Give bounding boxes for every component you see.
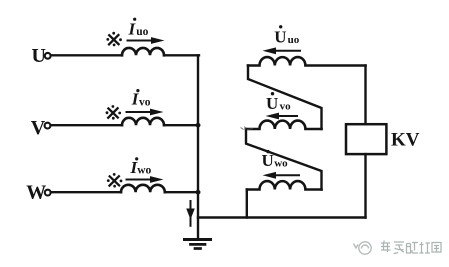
svg-text:wo: wo: [274, 157, 288, 169]
junction node V: [196, 123, 201, 128]
svg-text:I: I: [128, 20, 137, 39]
svg-text:U: U: [274, 28, 286, 47]
svg-text:uo: uo: [288, 34, 300, 46]
junction node W: [196, 190, 201, 195]
svg-text:uo: uo: [136, 26, 148, 38]
wire W phase left: [52, 191, 122, 193]
voltage arrow Uuo: [263, 47, 301, 54]
svg-text:KV: KV: [391, 130, 420, 151]
CT coil W: [121, 185, 165, 192]
svg-text:V: V: [31, 117, 46, 139]
terminal V: [45, 123, 51, 129]
polarity mark V: [106, 105, 122, 120]
label Ivo: [131, 89, 151, 109]
svg-text:U: U: [262, 151, 274, 170]
current arrow Iuo: [128, 37, 165, 44]
wire coil Uwo to bottom: [246, 190, 248, 218]
label Iuo: [128, 18, 149, 39]
label Uvo: [266, 92, 291, 113]
terminal W: [45, 190, 51, 196]
artifact mark: [241, 127, 254, 130]
voltage arrow Uwo: [263, 172, 300, 179]
wire top to relay: [364, 66, 366, 125]
relay KV: [346, 124, 386, 154]
svg-text:vo: vo: [139, 96, 151, 108]
wire V phase right: [164, 124, 199, 126]
PT coil Uuo row baseline: [248, 57, 366, 65]
label Iwo: [130, 157, 152, 177]
wire zigzag V-W: [246, 129, 322, 190]
svg-text:W: W: [26, 182, 46, 204]
current arrow Ivo: [127, 109, 164, 116]
CT coil V: [122, 118, 164, 125]
polarity mark W: [107, 173, 123, 188]
current arrow 3I0 to ground: [186, 201, 195, 226]
polarity mark U: [106, 32, 122, 46]
wire neutral bus: [197, 55, 199, 239]
wire V phase left: [52, 124, 123, 126]
label Uwo: [262, 150, 289, 170]
voltage arrow Uvo: [266, 113, 298, 120]
PT coil Uwo row baseline: [247, 181, 322, 189]
wire residual bottom: [198, 216, 366, 218]
label Uuo: [274, 25, 299, 47]
terminal U: [45, 53, 51, 59]
ground: [185, 240, 211, 249]
watermark text: [381, 241, 441, 254]
watermark logo: [354, 242, 372, 254]
CT coil U: [122, 48, 164, 55]
PT coil Uvo row baseline: [246, 121, 322, 129]
wire U phase right: [164, 54, 199, 56]
wire W phase right: [165, 191, 199, 193]
svg-text:U: U: [32, 45, 46, 67]
current arrow Iwo: [127, 176, 164, 183]
wire U phase left: [52, 54, 123, 56]
svg-text:vo: vo: [280, 100, 292, 112]
wire zigzag U-V: [248, 66, 322, 130]
wire relay to bottom: [364, 154, 366, 217]
svg-text:U: U: [266, 94, 278, 113]
svg-text:wo: wo: [137, 164, 151, 176]
